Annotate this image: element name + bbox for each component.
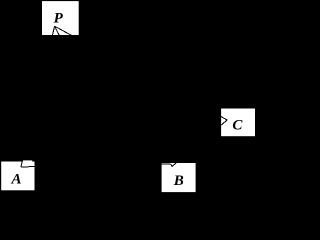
- svg-text:B: B: [173, 173, 184, 189]
- svg-text:A: A: [11, 171, 22, 187]
- svg-text:P: P: [54, 10, 64, 26]
- svg-text:C: C: [232, 118, 243, 134]
